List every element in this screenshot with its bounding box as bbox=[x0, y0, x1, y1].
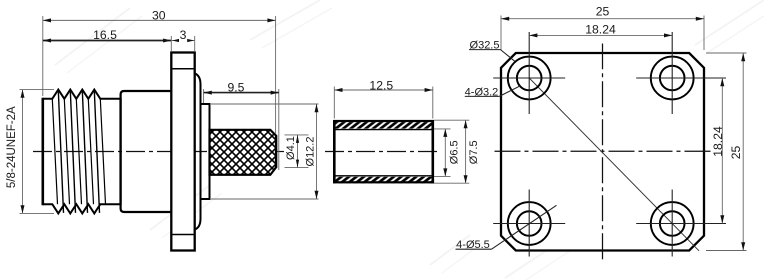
dim 30 bbox=[43, 19, 276, 21]
svg-text:Ø12.2: Ø12.2 bbox=[304, 137, 316, 167]
svg-text:Ø6.5: Ø6.5 bbox=[449, 140, 461, 164]
svg-text:25: 25 bbox=[596, 5, 610, 19]
dim dia7.5 bbox=[465, 120, 467, 183]
dim dia7.5 extension lines bbox=[434, 119, 469, 121]
thread section top profile bbox=[43, 90, 121, 99]
dim 3 bbox=[171, 40, 178, 42]
svg-text:25: 25 bbox=[729, 146, 743, 160]
dim 16.5 bbox=[43, 40, 172, 42]
thread spec extension lines bbox=[20, 89, 55, 91]
svg-text:Ø4.1: Ø4.1 bbox=[285, 136, 297, 160]
barrel cylinder bbox=[201, 104, 210, 199]
dim 18.24 right bbox=[721, 78, 723, 224]
body cylinder bbox=[121, 91, 172, 99]
thread spec dim line bbox=[22, 90, 24, 214]
dim dia12.2 extension lines bbox=[211, 103, 319, 105]
dim 18.24 top bbox=[529, 34, 672, 36]
flange chamfer edge top bbox=[172, 68, 193, 70]
dim 25 right extension lines bbox=[706, 52, 747, 54]
svg-text:18.24: 18.24 bbox=[585, 23, 616, 37]
ferrule wall hatch top bbox=[335, 122, 431, 129]
connector left face bbox=[41, 98, 44, 205]
dim 12.5 bbox=[334, 89, 433, 91]
ferrule centerline bbox=[325, 151, 441, 153]
flange face square bbox=[501, 53, 704, 251]
dim dia4.1 bbox=[297, 135, 299, 168]
svg-text:3: 3 bbox=[180, 28, 187, 42]
svg-text:30: 30 bbox=[152, 8, 166, 22]
thread section bottom profile bbox=[43, 204, 121, 213]
hole centermark top-left bbox=[493, 77, 565, 79]
watermark bbox=[55, 8, 130, 65]
dim 9.5 bbox=[204, 92, 279, 94]
dim 25 top extension lines bbox=[500, 16, 502, 51]
mounting hole bottom-right bbox=[660, 211, 685, 236]
hole centermark bottom-right bbox=[636, 223, 726, 225]
svg-text:16.5: 16.5 bbox=[93, 28, 117, 42]
dim dia6.5 extension lines bbox=[434, 128, 451, 130]
dim dia6.5 bbox=[444, 129, 446, 177]
mounting hole top-left bbox=[517, 66, 542, 91]
sleeve end face bbox=[275, 135, 277, 168]
svg-text:18.24: 18.24 bbox=[711, 126, 725, 157]
dim 30 extension lines bbox=[42, 16, 44, 96]
svg-text:12.5: 12.5 bbox=[369, 78, 393, 92]
flange chamfer edge bottom bbox=[172, 234, 193, 236]
dim dia12.2 bbox=[316, 104, 318, 199]
hole centermark top-right bbox=[636, 77, 726, 79]
dim 25 right bbox=[742, 53, 744, 251]
dim dia4.1 extension lines bbox=[285, 134, 309, 136]
dim 25 top bbox=[501, 18, 704, 20]
flange horizontal centerline bbox=[491, 150, 715, 152]
mounting hole top-right bbox=[660, 66, 685, 91]
dim 9.5 extension lines bbox=[203, 89, 205, 103]
flange vertical centerline bbox=[602, 44, 604, 261]
dim 12.5 extension lines bbox=[333, 87, 335, 119]
knurled sleeve bbox=[210, 130, 277, 175]
centerline left view bbox=[33, 151, 276, 153]
ferrule left face bbox=[333, 120, 336, 183]
ferrule wall hatch bottom bbox=[335, 177, 431, 184]
mounting hole bottom-left bbox=[517, 211, 542, 236]
ferrule outer shell bbox=[334, 121, 433, 182]
dim 3 extension lines bbox=[170, 36, 172, 51]
ferrule right face bbox=[431, 120, 434, 183]
ferrule inner bore lines bbox=[336, 129, 432, 131]
flange plate side view bbox=[171, 53, 194, 251]
svg-text:9.5: 9.5 bbox=[228, 80, 245, 94]
svg-text:5/8-24UNEF-2A: 5/8-24UNEF-2A bbox=[6, 106, 18, 188]
hole centermark bottom-left bbox=[493, 223, 565, 225]
thread flank lines bbox=[58, 90, 63, 213]
rear boss bbox=[195, 74, 201, 230]
svg-text:Ø7.5: Ø7.5 bbox=[468, 140, 480, 164]
diagonal centerline bbox=[529, 78, 699, 251]
